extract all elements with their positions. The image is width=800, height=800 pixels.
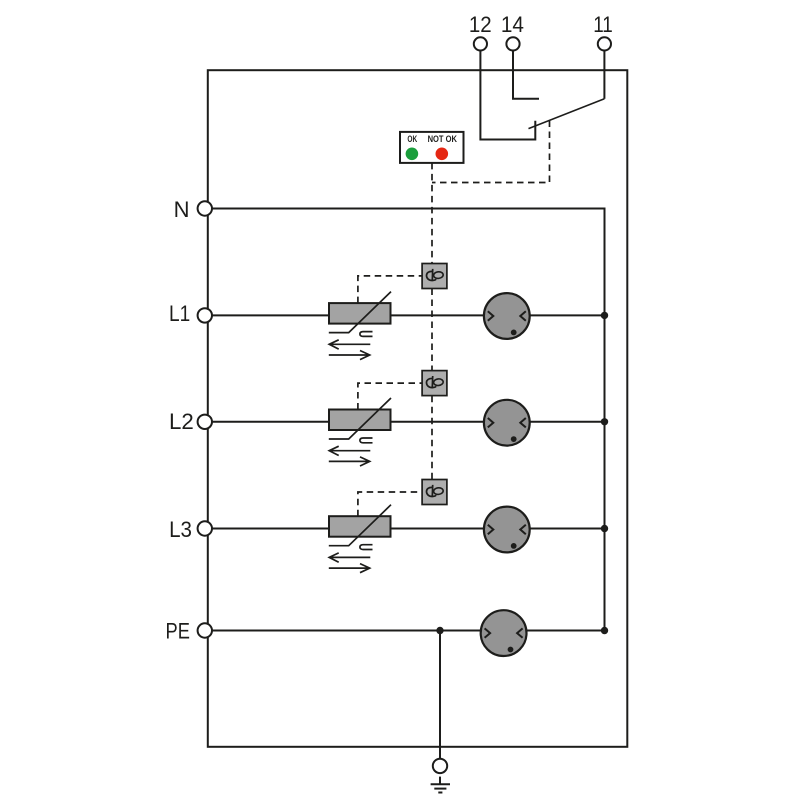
thermal disconnector 2: [422, 371, 447, 396]
green LED: [406, 148, 419, 161]
junction PE bus: [601, 627, 608, 634]
thermal disconnector 1: [422, 264, 447, 289]
terminal L3: [198, 521, 212, 535]
junction L3 bus: [601, 525, 608, 532]
varistor L3: [329, 505, 391, 573]
svg-text:11: 11: [593, 12, 613, 37]
terminal PE: [198, 623, 212, 637]
wire from 11: [603, 51, 605, 99]
terminal 14: [506, 37, 519, 50]
terminal 11: [598, 37, 611, 50]
svg-text:PE: PE: [166, 618, 190, 643]
svg-text:L3: L3: [169, 517, 192, 542]
wire L2: [212, 421, 605, 423]
wire from 12 to contact: [480, 51, 535, 140]
dashed link varistor L2 to disconnector 2: [358, 383, 422, 409]
dashed link varistor L1 to disconnector 1: [358, 276, 422, 303]
status indicator box: [400, 132, 464, 163]
varistor L2: [329, 398, 391, 466]
junction L1 bus: [601, 312, 608, 319]
svg-text:12: 12: [469, 12, 492, 37]
svg-text:NOT OK: NOT OK: [428, 134, 458, 144]
thermal disconnector 3: [422, 480, 447, 505]
dashed link disconnector 2 to 3: [431, 396, 433, 480]
spark gap L2: [484, 400, 530, 446]
ground: [431, 777, 450, 793]
junction PE earth: [436, 627, 443, 634]
svg-text:OK: OK: [407, 134, 417, 144]
spark gap PE: [481, 610, 527, 656]
changeover switch blade: [529, 99, 605, 129]
wire from 14 stub: [513, 51, 539, 99]
dashed link disconnector 1 to 2: [431, 289, 433, 371]
svg-text:N: N: [174, 197, 190, 222]
dashed link from switch blade: [432, 121, 550, 183]
dashed link varistor L3 to disconnector 3: [358, 492, 422, 516]
wire L1: [212, 314, 605, 316]
earth terminal: [433, 759, 447, 773]
terminal L1: [198, 308, 212, 322]
wire N bus: [212, 209, 605, 631]
spark gap L1: [484, 293, 530, 339]
terminal L2: [198, 415, 212, 429]
terminal N: [198, 201, 212, 215]
svg-text:14: 14: [501, 12, 524, 37]
varistor L1: [329, 292, 391, 360]
terminal 12: [474, 37, 487, 50]
spark gap L3: [484, 507, 530, 553]
dashed link indicator to disconnector 1: [431, 163, 433, 264]
wire L3: [212, 528, 605, 530]
svg-text:L1: L1: [169, 301, 190, 326]
junction L2 bus: [601, 418, 608, 425]
wire PE to earth: [439, 631, 441, 759]
device enclosure box: [208, 70, 628, 747]
wire PE: [212, 630, 605, 632]
svg-text:L2: L2: [169, 409, 194, 434]
red LED: [436, 148, 449, 161]
